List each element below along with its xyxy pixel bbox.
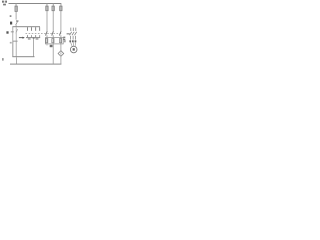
- wire pole 1 below box stub: [46, 44, 49, 46]
- label N: [2, 58, 4, 61]
- aux contact bottom stub 1: [26, 35, 29, 37]
- label W2 left: [64, 40, 66, 42]
- motor wire 1 lower: [69, 36, 72, 40]
- overload F2 heater 3: [60, 39, 62, 43]
- lamp H1 center: [60, 52, 63, 54]
- wire below fuse F1: [15, 11, 18, 19]
- aux contact bottom stub 3: [34, 35, 37, 37]
- overload F2 heater 2: [52, 39, 54, 43]
- contactor KM1 contact slash 1: [46, 31, 48, 35]
- wire pole 2 lower stub: [52, 35, 55, 38]
- wire neutral bus: [12, 56, 34, 57]
- junction dot: [33, 37, 35, 39]
- wire coil branch drop: [32, 38, 35, 57]
- aux contact slash 1: [30, 27, 33, 31]
- wire pole 1 lower stub: [46, 35, 49, 38]
- label near pole 2: [50, 45, 53, 47]
- motor wire 2 slash: [72, 32, 74, 35]
- contactor KM1 contact slash 2: [52, 31, 54, 35]
- node L2 label: [4, 1, 7, 3]
- label S1: [10, 15, 12, 17]
- label V1: [72, 40, 74, 42]
- cable mark dash: [67, 32, 70, 35]
- wire branch top: [12, 26, 40, 27]
- wire coil right side lower: [15, 41, 18, 56]
- motor wire 3 lower: [74, 36, 77, 40]
- aux contact bottom stub 2: [30, 35, 33, 37]
- overload F2 heater 1: [46, 39, 48, 43]
- actuator arrow: [19, 36, 23, 39]
- wire power drop 1 upper: [46, 3, 49, 6]
- wire control drop upper: [15, 3, 18, 6]
- fuse F1 control: [15, 6, 17, 11]
- node L3 label: [3, 4, 6, 6]
- start button S2 contact slash: [16, 29, 18, 33]
- lamp H1 diamond: [58, 51, 64, 57]
- wire phase rail top: [9, 3, 62, 4]
- fuse F1 pole 3: [60, 6, 62, 11]
- label F2: [63, 37, 65, 38]
- stop button S1 actuator: [10, 22, 12, 25]
- wire branch bottom: [26, 37, 40, 38]
- motor wire 2 lower: [72, 36, 75, 40]
- actuator arrow head: [23, 37, 25, 39]
- motor wire 3 upper: [74, 28, 77, 31]
- motor wire 1 to motor: [71, 42, 72, 46]
- wire power drop 3 upper: [60, 3, 63, 6]
- label terminal numbers right: [36, 38, 39, 39]
- motor wire 3 slash: [75, 32, 77, 35]
- stop button S1 contact seat: [16, 21, 19, 22]
- wire stop to node: [15, 25, 18, 27]
- coil KM1 top bar: [13, 40, 18, 43]
- wire bus to earth rail stub: [15, 57, 18, 64]
- start button S2 actuator: [6, 31, 8, 33]
- motor wire 1 slash: [70, 32, 72, 35]
- wire pole 3 lower stub: [60, 35, 63, 38]
- stop button S1 contact slash: [16, 21, 18, 25]
- motor M1: [70, 46, 77, 53]
- aux contact lead 2: [34, 27, 37, 31]
- label terminal numbers left: [28, 38, 31, 39]
- wire earth rail bottom: [10, 64, 61, 65]
- overload relay F2 box: [45, 38, 63, 44]
- wire coil left side lower: [11, 41, 14, 56]
- motor wire 2 upper: [72, 28, 75, 31]
- mechanical linkage dashed line: [26, 33, 62, 35]
- wire pole 2 to earth rail: [52, 44, 55, 64]
- wire pole 3 to lamp: [60, 44, 63, 51]
- aux contact bottom stub 4: [38, 35, 41, 37]
- motor wire 3 to motor: [74, 42, 76, 46]
- wire pole 1 mid: [46, 11, 49, 32]
- motor wire 2 to motor: [72, 42, 75, 46]
- wire lamp to earth rail: [60, 56, 63, 64]
- aux contact slash 2: [38, 27, 41, 31]
- label KM1 coil: [10, 42, 12, 44]
- wire power drop 2 upper: [52, 3, 55, 6]
- wire pole 2 mid: [52, 11, 55, 32]
- wire pole 3 mid: [60, 11, 63, 32]
- fuse F1 pole 2: [52, 6, 54, 11]
- label W1: [75, 40, 77, 42]
- node L1 label: [1, 1, 4, 3]
- fuse F1 pole 1: [46, 6, 48, 11]
- aux contact lead 1: [26, 27, 29, 31]
- start button S2 link dash: [11, 30, 14, 33]
- motor M1 letter: [73, 48, 75, 50]
- contactor KM1 contact slash 3: [59, 31, 61, 35]
- label U1: [69, 40, 71, 42]
- wire left branch vertical: [11, 27, 14, 57]
- wire main line mid: [15, 27, 18, 41]
- motor wire 1 upper: [69, 28, 72, 31]
